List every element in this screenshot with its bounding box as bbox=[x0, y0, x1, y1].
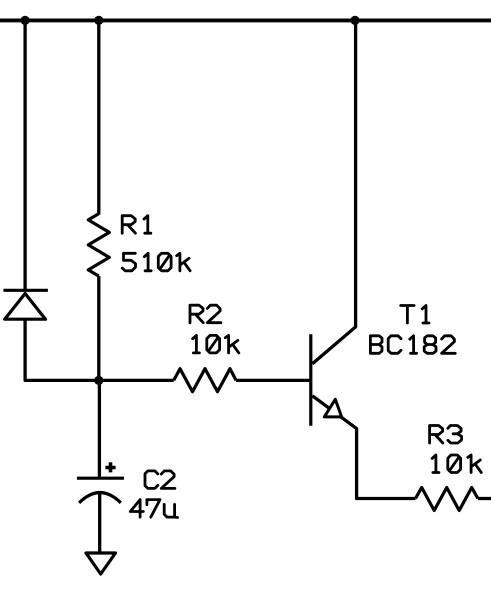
label R1 name bbox=[122, 216, 151, 234]
capacitor C2 curved plate bbox=[79, 493, 121, 503]
wire R1 top from rail bbox=[97, 20, 100, 214]
wire top supply rail bbox=[0, 18, 491, 22]
label T1 value BC182 bbox=[370, 336, 455, 354]
wire R1 bottom to node A bbox=[97, 276, 100, 380]
capacitor C2 top plate bbox=[77, 477, 124, 480]
label C2 value 47u bbox=[130, 500, 177, 518]
junction dot rail/collector bbox=[350, 16, 359, 25]
transistor T1 emitter arrow bbox=[324, 399, 341, 417]
wire node A to C2 bbox=[98, 380, 101, 476]
wire node A to R2 bbox=[99, 379, 174, 382]
node A junction dot bbox=[94, 376, 103, 385]
label R1 value 510k bbox=[122, 253, 190, 271]
junction dot rail/diode bbox=[21, 16, 30, 25]
junction dot rail/R1 bbox=[94, 16, 103, 25]
label R2 value 10k bbox=[193, 335, 239, 353]
diode D1 triangle bbox=[5, 294, 46, 320]
label C2 name bbox=[145, 471, 175, 489]
wire emitter/R3 stub to edge bbox=[478, 497, 491, 500]
resistor R1 zigzag bbox=[88, 214, 109, 277]
label R3 name bbox=[430, 426, 462, 444]
resistor R2 zigzag bbox=[174, 369, 236, 392]
wire T1 collector vertical bbox=[312, 20, 355, 363]
label T1 name bbox=[401, 306, 429, 324]
diode D1 cathode bar bbox=[3, 289, 48, 292]
label R3 value 10k bbox=[432, 455, 481, 473]
resistor R3 zigzag bbox=[416, 488, 478, 511]
transistor T1 emitter wire to R3 bbox=[312, 396, 415, 499]
wire diode cathode from rail bbox=[23, 20, 26, 290]
wire diode anode to node A bbox=[25, 319, 99, 380]
transistor T1 base bar bbox=[309, 334, 312, 426]
label R2 name bbox=[190, 305, 221, 323]
ground symbol bbox=[86, 553, 116, 574]
wire R2 to T1 base bbox=[236, 379, 311, 382]
capacitor C2 plus sign bbox=[105, 462, 115, 472]
wire C2 to ground bbox=[98, 493, 101, 553]
